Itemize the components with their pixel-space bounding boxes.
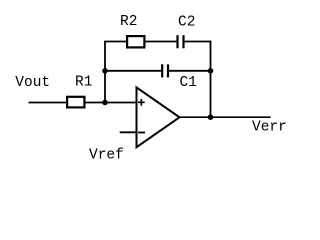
wire: right vertical feedback drop [210, 41, 212, 118]
wire: op-amp output to Verr [180, 116, 271, 118]
wire: top feedback branch left segment [104, 41, 177, 43]
wire: input from Vout to op-amp non-inverting input [29, 102, 137, 104]
svg-text:Verr: Verr [252, 120, 287, 136]
svg-text:C1: C1 [180, 75, 197, 91]
svg-text:Vout: Vout [15, 75, 50, 91]
node junction at output [208, 114, 214, 120]
op-amp U1 triangle [137, 87, 180, 147]
svg-text:R2: R2 [120, 14, 137, 30]
node junction at C1 left [102, 68, 108, 74]
wire: C1 branch right segment [168, 70, 211, 72]
capacitor C2 [178, 35, 184, 48]
resistor R2 [127, 36, 144, 47]
svg-text:C2: C2 [178, 14, 195, 30]
svg-text:Vref: Vref [89, 148, 124, 164]
op-amp minus input marker [138, 132, 145, 134]
wire: left vertical feedback riser [104, 42, 106, 103]
wire: top feedback branch right segment [184, 41, 211, 43]
capacitor C1 [162, 64, 168, 77]
resistor R1 [67, 97, 84, 108]
node junction at R1 output [102, 100, 108, 106]
svg-text:R1: R1 [75, 75, 92, 91]
node junction at C1 right [208, 68, 214, 74]
op-amp plus input marker [138, 99, 145, 106]
wire: C1 branch left segment [105, 70, 162, 72]
wire: inverting input stub from Vref [120, 131, 137, 133]
